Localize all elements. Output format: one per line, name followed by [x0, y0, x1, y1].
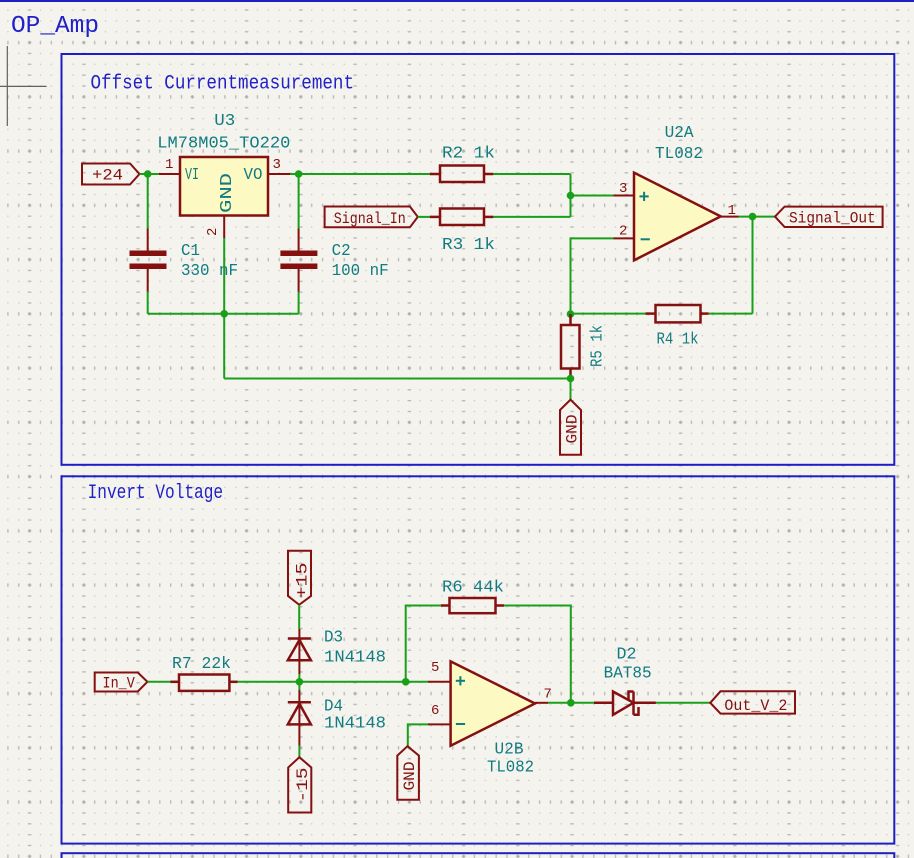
- wire output to D2: [548, 702, 594, 704]
- svg-text:C1: C1: [181, 242, 200, 261]
- gnd bus wire C1-C2: [148, 313, 299, 315]
- svg-text:D3: D3: [324, 629, 343, 648]
- resistor R5: [561, 314, 580, 378]
- junction below R5: [567, 375, 575, 383]
- wire output to Signal_Out: [739, 216, 776, 218]
- junction diode node: [296, 678, 304, 686]
- svg-text:TL082: TL082: [487, 759, 534, 778]
- resistor R2: [430, 166, 494, 183]
- wire Signal_In to R3: [418, 216, 430, 218]
- U2A minus mark: [641, 238, 650, 240]
- svg-text:GND: GND: [218, 173, 237, 213]
- svg-text:Offset Currentmeasurement: Offset Currentmeasurement: [91, 73, 355, 96]
- svg-text:2: 2: [619, 224, 627, 240]
- svg-text:Out_V_2: Out_V_2: [724, 697, 787, 715]
- svg-text:1N4148: 1N4148: [324, 649, 386, 668]
- svg-text:GND: GND: [564, 415, 582, 444]
- svg-text:-15: -15: [294, 768, 312, 803]
- wire R6 to output node: [504, 606, 571, 703]
- junction at +input node: [567, 192, 575, 200]
- svg-text:U2A: U2A: [665, 124, 695, 143]
- svg-text:GND: GND: [401, 762, 419, 791]
- svg-text:U2B: U2B: [495, 741, 524, 760]
- U2B pin 5: [428, 681, 451, 683]
- capacitor C1: [130, 229, 167, 292]
- op-amp U2A body: [634, 173, 721, 261]
- sheet box Invert Voltage: [62, 476, 895, 843]
- svg-text:6: 6: [431, 703, 439, 719]
- svg-text:1: 1: [728, 203, 736, 219]
- U2B minus mark: [456, 723, 465, 725]
- U2A plus mark: [640, 192, 649, 201]
- wire R3 to node: [493, 216, 570, 218]
- junction gnd bus: [220, 310, 228, 318]
- wire node to D4: [298, 682, 300, 690]
- resistor R6: [441, 598, 504, 613]
- wire +15 to D3: [298, 605, 300, 629]
- power label +15: [288, 551, 311, 605]
- wire R4 to output branch: [709, 313, 753, 315]
- wire gnd bus right to R5: [224, 378, 570, 380]
- U3 pin 2: [223, 216, 225, 239]
- wire U3 pin3 to C2/R2: [290, 173, 430, 175]
- svg-text:1N4148: 1N4148: [324, 715, 386, 734]
- svg-text:+24: +24: [92, 167, 123, 185]
- junction R6 node: [402, 678, 410, 686]
- svg-text:VO: VO: [244, 166, 263, 185]
- svg-text:R7 22k: R7 22k: [172, 655, 231, 674]
- power label -15: [288, 757, 311, 812]
- junction feedback node: [567, 310, 575, 318]
- svg-text:D2: D2: [617, 646, 637, 665]
- global label Out_V_2: [710, 691, 795, 713]
- diode D3: [298, 629, 300, 674]
- svg-text:100 nF: 100 nF: [332, 262, 389, 281]
- U2A pin 2: [614, 237, 635, 239]
- wire C1 to gnd bus: [147, 292, 149, 314]
- wire R2 to node: [493, 173, 570, 175]
- sheet box Offset Currentmeasurement: [62, 54, 895, 465]
- svg-text:3: 3: [273, 157, 281, 173]
- power label GND (section 1): [560, 400, 581, 455]
- svg-text:C2: C2: [332, 242, 351, 261]
- U3 pin 1: [159, 173, 180, 175]
- svg-text:LM78M05_TO220: LM78M05_TO220: [157, 135, 290, 154]
- global label In_V: [95, 673, 148, 692]
- wire In_V to R7: [147, 681, 170, 683]
- svg-text:2: 2: [205, 228, 221, 236]
- junction at U3 output: [295, 170, 303, 178]
- wire output down to R4: [752, 217, 754, 314]
- vertical node wire R2-R3: [570, 174, 572, 217]
- svg-text:330 nF: 330 nF: [181, 262, 238, 281]
- junction output node: [567, 699, 575, 707]
- wire feedback node to R4: [571, 313, 646, 315]
- sheet top border: [0, 0, 914, 2]
- wire +24 to U3 pin1: [140, 173, 159, 175]
- wire D3 to node: [298, 674, 300, 682]
- regulator U3 body: [180, 157, 268, 216]
- op-amp U2B body: [451, 661, 535, 745]
- U2B pin 7 output: [535, 702, 548, 704]
- U3 pin 3: [268, 173, 290, 175]
- U2A pin 3: [614, 195, 635, 197]
- wire node to pin3: [571, 195, 614, 197]
- svg-text:Invert Voltage: Invert Voltage: [88, 482, 224, 505]
- svg-text:7: 7: [544, 687, 552, 703]
- svg-text:R3 1k: R3 1k: [442, 236, 495, 255]
- svg-text:BAT85: BAT85: [604, 665, 652, 684]
- svg-text:R5 1k: R5 1k: [589, 325, 608, 367]
- svg-text:OP_Amp: OP_Amp: [11, 13, 99, 40]
- svg-text:1: 1: [165, 157, 173, 173]
- wire U3 pin2 down: [223, 238, 225, 314]
- wire D4 to -15: [298, 746, 300, 758]
- U2A pin 1 output: [721, 216, 739, 218]
- svg-text:In_V: In_V: [103, 675, 136, 693]
- junction at +24 node: [144, 170, 152, 178]
- svg-text:U3: U3: [214, 112, 235, 131]
- svg-text:R2 1k: R2 1k: [442, 145, 495, 164]
- wire R5 to GND label: [570, 379, 572, 400]
- power label +24: [82, 164, 140, 185]
- wire R7 to op-amp: [238, 681, 429, 683]
- svg-text:R4 1k: R4 1k: [657, 331, 699, 350]
- global label Signal_Out: [775, 207, 883, 227]
- wire gnd bus down: [223, 314, 225, 379]
- svg-text:VI: VI: [185, 166, 199, 185]
- sheet box 3 (clipped): [62, 853, 895, 858]
- capacitor C2: [280, 229, 317, 292]
- global label Signal_In: [325, 207, 418, 228]
- wire C2 to gnd bus: [298, 292, 300, 314]
- svg-text:+15: +15: [293, 563, 311, 599]
- svg-text:R6 44k: R6 44k: [442, 579, 504, 598]
- junction at output: [749, 213, 757, 221]
- svg-text:5: 5: [431, 660, 439, 676]
- svg-text:3: 3: [619, 181, 627, 197]
- diode D2 (schottky): [594, 692, 656, 715]
- power label GND (section 2): [397, 746, 419, 800]
- resistor R4: [646, 305, 709, 322]
- U2B plus mark: [456, 676, 465, 685]
- wire D2 to Out_V_2: [656, 702, 710, 704]
- wire pin2 to feedback node: [571, 238, 614, 314]
- wire down to C2: [298, 174, 300, 229]
- U2B pin 6: [428, 723, 451, 725]
- svg-text:Signal_In: Signal_In: [334, 210, 406, 228]
- resistor R7: [171, 675, 238, 691]
- svg-text:Signal_Out: Signal_Out: [789, 210, 876, 228]
- resistor R3: [430, 209, 494, 226]
- diode D4: [298, 690, 300, 746]
- wire pin6 to GND label: [408, 724, 428, 746]
- wire node up to R6: [406, 606, 441, 682]
- wire down to C1: [147, 174, 149, 229]
- svg-text:TL082: TL082: [655, 145, 703, 164]
- sheet origin crosshair: [0, 46, 47, 126]
